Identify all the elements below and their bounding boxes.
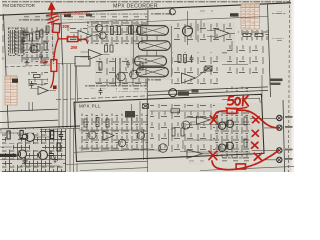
pll right component cluster (215, 111, 251, 157)
U303 labels (188, 161, 204, 164)
small transistor Q404 (22, 134, 27, 139)
svg-text:FM DETECTOR: FM DETECTOR (3, 3, 36, 8)
right lower frame wire (283, 100, 285, 172)
right mid wire (222, 41, 262, 97)
transistor Q101 (30, 45, 37, 52)
resistor R105 (44, 42, 47, 50)
paper background (0, 0, 294, 172)
bottom right labels (222, 157, 250, 163)
terminal J1 (277, 115, 282, 120)
mid drop wires (29, 64, 76, 129)
coil lower labels (146, 79, 162, 82)
freq label blob2 (270, 83, 281, 85)
capacitor C405 (59, 132, 63, 140)
terminal J3 (277, 148, 282, 153)
resistor R107 (46, 26, 49, 33)
transistor Q307 (226, 142, 233, 149)
stereo label (216, 52, 227, 55)
transformer can T203 (135, 56, 167, 66)
capacitor C109 (25, 30, 29, 38)
mid label row (58, 14, 147, 20)
decoder top label row (150, 13, 176, 16)
bottom mid vertical wires (70, 128, 77, 172)
voltage table top right (241, 4, 260, 29)
transformer can T201 (137, 26, 169, 36)
transistor Q204 (130, 70, 139, 79)
red resistor 62K box (51, 60, 57, 72)
red X mark 1 (210, 116, 217, 124)
decoder mid component cluster (170, 52, 218, 84)
resistor R103 (36, 31, 39, 39)
wire mid bus (58, 20, 147, 28)
resistor R203 (131, 26, 134, 34)
connector dot maroon (53, 86, 57, 90)
op-amp U201 (182, 67, 210, 83)
resistor R302 (96, 118, 99, 127)
wire to terminals (250, 118, 277, 160)
FM detector component cluster (21, 27, 51, 63)
capacitor C210 (190, 55, 194, 63)
red X mark 3 (252, 130, 258, 136)
ceramic filter CF301 (125, 111, 135, 118)
resistor R207 (140, 62, 143, 70)
transistor Q309 (182, 121, 190, 129)
red resistor 2M box (67, 37, 78, 42)
IC label blob (178, 91, 189, 95)
terminal J2 (277, 125, 282, 130)
red capacitor mod (48, 16, 59, 25)
transistor Q210 (169, 9, 175, 15)
resistor R303 (106, 119, 109, 127)
bottom mid wire B (66, 161, 148, 164)
wire pll internal bottom (74, 149, 150, 152)
resistor R320 (244, 117, 247, 125)
lower left block top wire (0, 126, 80, 129)
MPX PLL box (74, 94, 264, 161)
ground G5 (22, 158, 27, 164)
resistor R321 (244, 139, 247, 147)
wire fm bottom (28, 80, 48, 85)
wire pll right (186, 118, 250, 153)
svg-text:10uF/160V BP: 10uF/160V BP (61, 10, 90, 15)
pre-pll label row A (84, 85, 111, 88)
red X mark 6 (209, 151, 217, 159)
red 50K underline (226, 107, 247, 109)
wire bus to pll (56, 96, 148, 100)
transistor Q306 (218, 144, 225, 151)
resistor R220 (243, 34, 251, 37)
terminal labels (285, 116, 293, 160)
right under-table component cluster (238, 30, 268, 41)
resistor R310 (172, 128, 175, 136)
can connect wires (134, 26, 172, 77)
capacitor C107 (39, 52, 43, 60)
capacitor C110 (30, 81, 34, 88)
resistor R407 (51, 131, 54, 139)
IC label blob 2 (192, 89, 199, 93)
capacitor C106 (21, 37, 25, 45)
transistor Q304 (218, 122, 225, 129)
op-amp U301 (103, 131, 114, 140)
right margin labels top (272, 11, 286, 14)
resistor R311 (181, 128, 184, 136)
resistor R202 (118, 27, 121, 35)
left mid wire A (0, 109, 58, 111)
crystal X201 (205, 66, 212, 71)
resistor R112 (31, 44, 34, 51)
terminal J4 (277, 157, 282, 162)
op-amp U102 (30, 87, 56, 95)
IF transformer T101 (9, 28, 25, 56)
gap patch 4 (30, 144, 42, 150)
wire pll left (79, 101, 160, 150)
wire mid vertical pair (116, 58, 121, 86)
resistor R201 (111, 27, 114, 35)
red X mark 4 (252, 142, 258, 148)
resistor R406 (20, 131, 23, 139)
capacitor C406 (49, 151, 53, 159)
mid bottom labels (105, 84, 147, 87)
svg-text:62K: 62K (40, 59, 48, 64)
ground G1 (25, 60, 30, 66)
red wire down (54, 39, 58, 60)
red text 50K (228, 96, 249, 106)
resistor R304 (171, 109, 180, 113)
op-amp U103 (70, 31, 99, 42)
bottom right wire (200, 166, 294, 170)
resistor R221 (255, 34, 263, 37)
resistor R408 (57, 143, 60, 151)
wires lower-left (0, 133, 65, 166)
resistor R212 (184, 55, 187, 63)
transistor Q302 (118, 139, 125, 146)
svg-text:30K: 30K (62, 24, 70, 29)
transformer can T202 (138, 41, 170, 51)
power bar (0, 154, 17, 157)
label blob A (64, 14, 71, 17)
right column frame wire (268, 5, 271, 98)
transistor Q207 (169, 89, 177, 97)
gap patch 3 (6, 134, 18, 143)
bottom left of pll verticals (144, 129, 148, 172)
wire x201 (200, 20, 202, 33)
pre-pll label row B (116, 86, 148, 92)
transistor Q403 (39, 151, 48, 160)
gap patch 5 (12, 160, 22, 165)
resistor R108 (34, 75, 41, 78)
left mid wire B (0, 120, 58, 122)
ground G6 (52, 157, 57, 163)
resistor R209 (110, 45, 113, 52)
red wire left of 50K (213, 111, 227, 118)
red X mark 2 (253, 117, 259, 123)
right page margin (292, 0, 295, 172)
op-amp U101 (81, 50, 110, 60)
top grid reference labels (2, 0, 290, 2)
red resistor bottom box (236, 164, 245, 169)
left frame wire (4, 14, 9, 128)
block top second wire (0, 128, 80, 131)
red X mark 5 (254, 153, 261, 160)
resistor R206 (99, 62, 102, 70)
right mid component cluster (227, 45, 265, 74)
FM detector lower component cluster (28, 72, 48, 87)
capacitor C101 (23, 29, 27, 39)
red bottom wire (212, 151, 278, 170)
transistor Q402 (19, 150, 27, 158)
resistor block RB1 (75, 57, 90, 67)
left margin pin labels (0, 16, 3, 60)
divider wire x61 (61, 14, 63, 65)
resistor R106 (40, 30, 43, 37)
resistor R204 (138, 26, 141, 34)
FM detector label rows (18, 15, 51, 22)
parts table left (5, 76, 17, 105)
FM section divider wire (51, 15, 53, 66)
resistor R301 (84, 119, 87, 127)
wire decoder buses (148, 87, 268, 95)
crystal X301 (143, 104, 149, 109)
left page edge strip (0, 0, 2, 172)
red wire junction branch (58, 39, 87, 43)
mid lower component cluster (95, 58, 147, 86)
transformer can T204 (136, 67, 168, 77)
gap patch 2 (52, 161, 63, 166)
resistor R113 (37, 44, 40, 51)
dark part top right (230, 13, 239, 16)
wire pll mid verticals (169, 129, 184, 149)
op-amp U203 (207, 29, 235, 39)
resistor R205 (129, 26, 132, 34)
red resistor 50K box (227, 108, 237, 113)
resistor R405 (7, 131, 10, 139)
resistor R211 (178, 55, 181, 63)
right margin labels mid (272, 38, 284, 41)
FM lower dashed divider wire (5, 65, 51, 67)
power supply dense cluster (2, 129, 66, 173)
haze overlays (scan fuzz) (0, 14, 262, 172)
svg-text:2M: 2M (71, 45, 78, 50)
capacitor C215 (99, 88, 103, 95)
right outer dashed frame (289, 0, 290, 172)
transistor Q301 (88, 131, 96, 139)
red resistor 30K box (53, 22, 60, 39)
gap patch 1 (4, 144, 13, 150)
transistor Q203 (117, 72, 126, 81)
red wire tail (51, 72, 54, 88)
bottom mid wire C (80, 168, 148, 171)
mid component cluster upper (87, 21, 147, 45)
resistor R102 (30, 33, 33, 41)
top frame wire (0, 3, 291, 15)
top bus parts right (226, 87, 250, 93)
wire mid lower (77, 66, 148, 101)
transistor Q202 (99, 32, 106, 39)
block top gap (2, 129, 40, 133)
transistor Q303 (159, 144, 168, 153)
mid component cluster left (64, 28, 87, 42)
pll left component cluster (79, 114, 148, 152)
transistor Q308 (137, 132, 144, 139)
decoder upper component cluster (173, 22, 235, 42)
corner double wire (222, 98, 260, 103)
resistor R208 (105, 45, 108, 52)
transistor Q305 (226, 120, 233, 127)
wire decoder top (147, 11, 268, 45)
red annotation: arrow up (48, 2, 55, 15)
red wire right of 50K (237, 110, 278, 128)
label blob B (86, 14, 92, 17)
op-amp U304 (190, 116, 215, 124)
freq label blob (270, 79, 283, 82)
capacitor C212 (126, 60, 130, 68)
transistor Q201 (96, 25, 103, 32)
op-amp U303 (180, 150, 210, 159)
transistor Q401 (26, 133, 35, 142)
wire fm mid (21, 44, 49, 58)
mid tall wire x147 (146, 10, 149, 160)
component over table corner (12, 79, 18, 83)
pll mid component cluster (150, 104, 215, 152)
transistor Q205 (183, 26, 193, 36)
ground G2 (43, 60, 48, 66)
red capacitor plate mod (47, 14, 58, 16)
wire pll mid long (150, 110, 212, 112)
